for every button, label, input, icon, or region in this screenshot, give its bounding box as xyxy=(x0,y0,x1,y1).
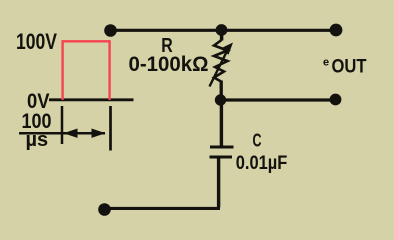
svg-text:100V: 100V xyxy=(16,29,57,54)
svg-text:µs: µs xyxy=(26,129,49,151)
svg-text:0.01µF: 0.01µF xyxy=(236,153,287,174)
svg-text:OUT: OUT xyxy=(332,57,367,78)
svg-text:e: e xyxy=(323,57,329,69)
svg-text:C: C xyxy=(253,130,262,150)
svg-text:0-100kΩ: 0-100kΩ xyxy=(129,53,209,76)
